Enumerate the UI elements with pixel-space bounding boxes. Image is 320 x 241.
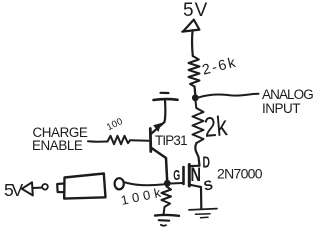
connector circle left — [42, 184, 48, 190]
wire resistor to base — [130, 139, 149, 142]
wire to analog input — [199, 94, 259, 98]
label D — [203, 155, 211, 172]
resistor R3 100 — [108, 136, 131, 144]
svg-text:100k: 100k — [120, 184, 166, 208]
connector arrow triangle — [22, 182, 33, 195]
svg-text:2k: 2k — [203, 110, 229, 143]
label G — [173, 167, 180, 184]
mosfet channel bar — [188, 165, 191, 187]
label S — [202, 177, 214, 194]
label CHARGE ENABLE — [32, 125, 88, 153]
svg-text:2N7000: 2N7000 — [217, 166, 263, 182]
node junction dot — [192, 94, 199, 101]
5V supply label — [183, 0, 208, 21]
5V arrow symbol — [182, 20, 199, 32]
rail bar symbol above TIP31 — [154, 98, 178, 102]
wire from arrow to resistor — [191, 30, 194, 56]
resistor R4 100k — [162, 187, 172, 214]
5V connector label bottom left — [4, 180, 24, 200]
svg-text:INPUT: INPUT — [262, 101, 300, 116]
svg-text:S: S — [202, 177, 214, 194]
resistor R2 2k — [193, 101, 204, 144]
svg-text:5V: 5V — [183, 0, 208, 21]
wire resistor to node — [193, 87, 196, 95]
connector circle right of box — [115, 178, 124, 189]
label 100 — [105, 116, 125, 133]
wire ENABLE to resistor — [88, 140, 108, 142]
svg-text:D: D — [203, 155, 211, 172]
module box tab — [57, 184, 64, 193]
label 2-6k — [201, 55, 239, 79]
svg-text:TIP31: TIP31 — [155, 133, 187, 148]
svg-text:N: N — [191, 165, 202, 186]
mosfet gate bar — [182, 167, 185, 184]
label N arrow — [191, 165, 202, 186]
mosfet drain lead — [189, 165, 199, 168]
TIP31 emitter lead — [151, 148, 167, 182]
svg-text:ANALOG: ANALOG — [262, 87, 313, 102]
svg-text:2-6k: 2-6k — [201, 55, 239, 79]
label 2N7000 — [217, 166, 263, 182]
svg-text:100: 100 — [105, 116, 125, 133]
resistor R1 2-6k — [189, 56, 200, 87]
label ANALOG INPUT — [262, 87, 313, 116]
svg-text:ENABLE: ENABLE — [32, 138, 83, 153]
gate node junction dot — [164, 180, 171, 187]
ground symbol left — [155, 214, 179, 217]
label 100k — [120, 184, 166, 208]
svg-text:5V: 5V — [4, 180, 24, 200]
wire circle to gate node — [124, 182, 164, 185]
mosfet source lead — [189, 185, 201, 209]
TIP31 collector lead — [150, 101, 165, 135]
wire node to gate — [171, 182, 183, 185]
module box — [64, 174, 105, 199]
svg-text:G: G — [173, 167, 180, 184]
label TIP31 — [155, 133, 187, 148]
connector wire — [33, 187, 42, 189]
label 2k — [203, 110, 229, 143]
wire 2k to drain — [195, 143, 199, 166]
TIP31 base bar — [149, 129, 152, 152]
ground symbol right — [189, 209, 217, 210]
